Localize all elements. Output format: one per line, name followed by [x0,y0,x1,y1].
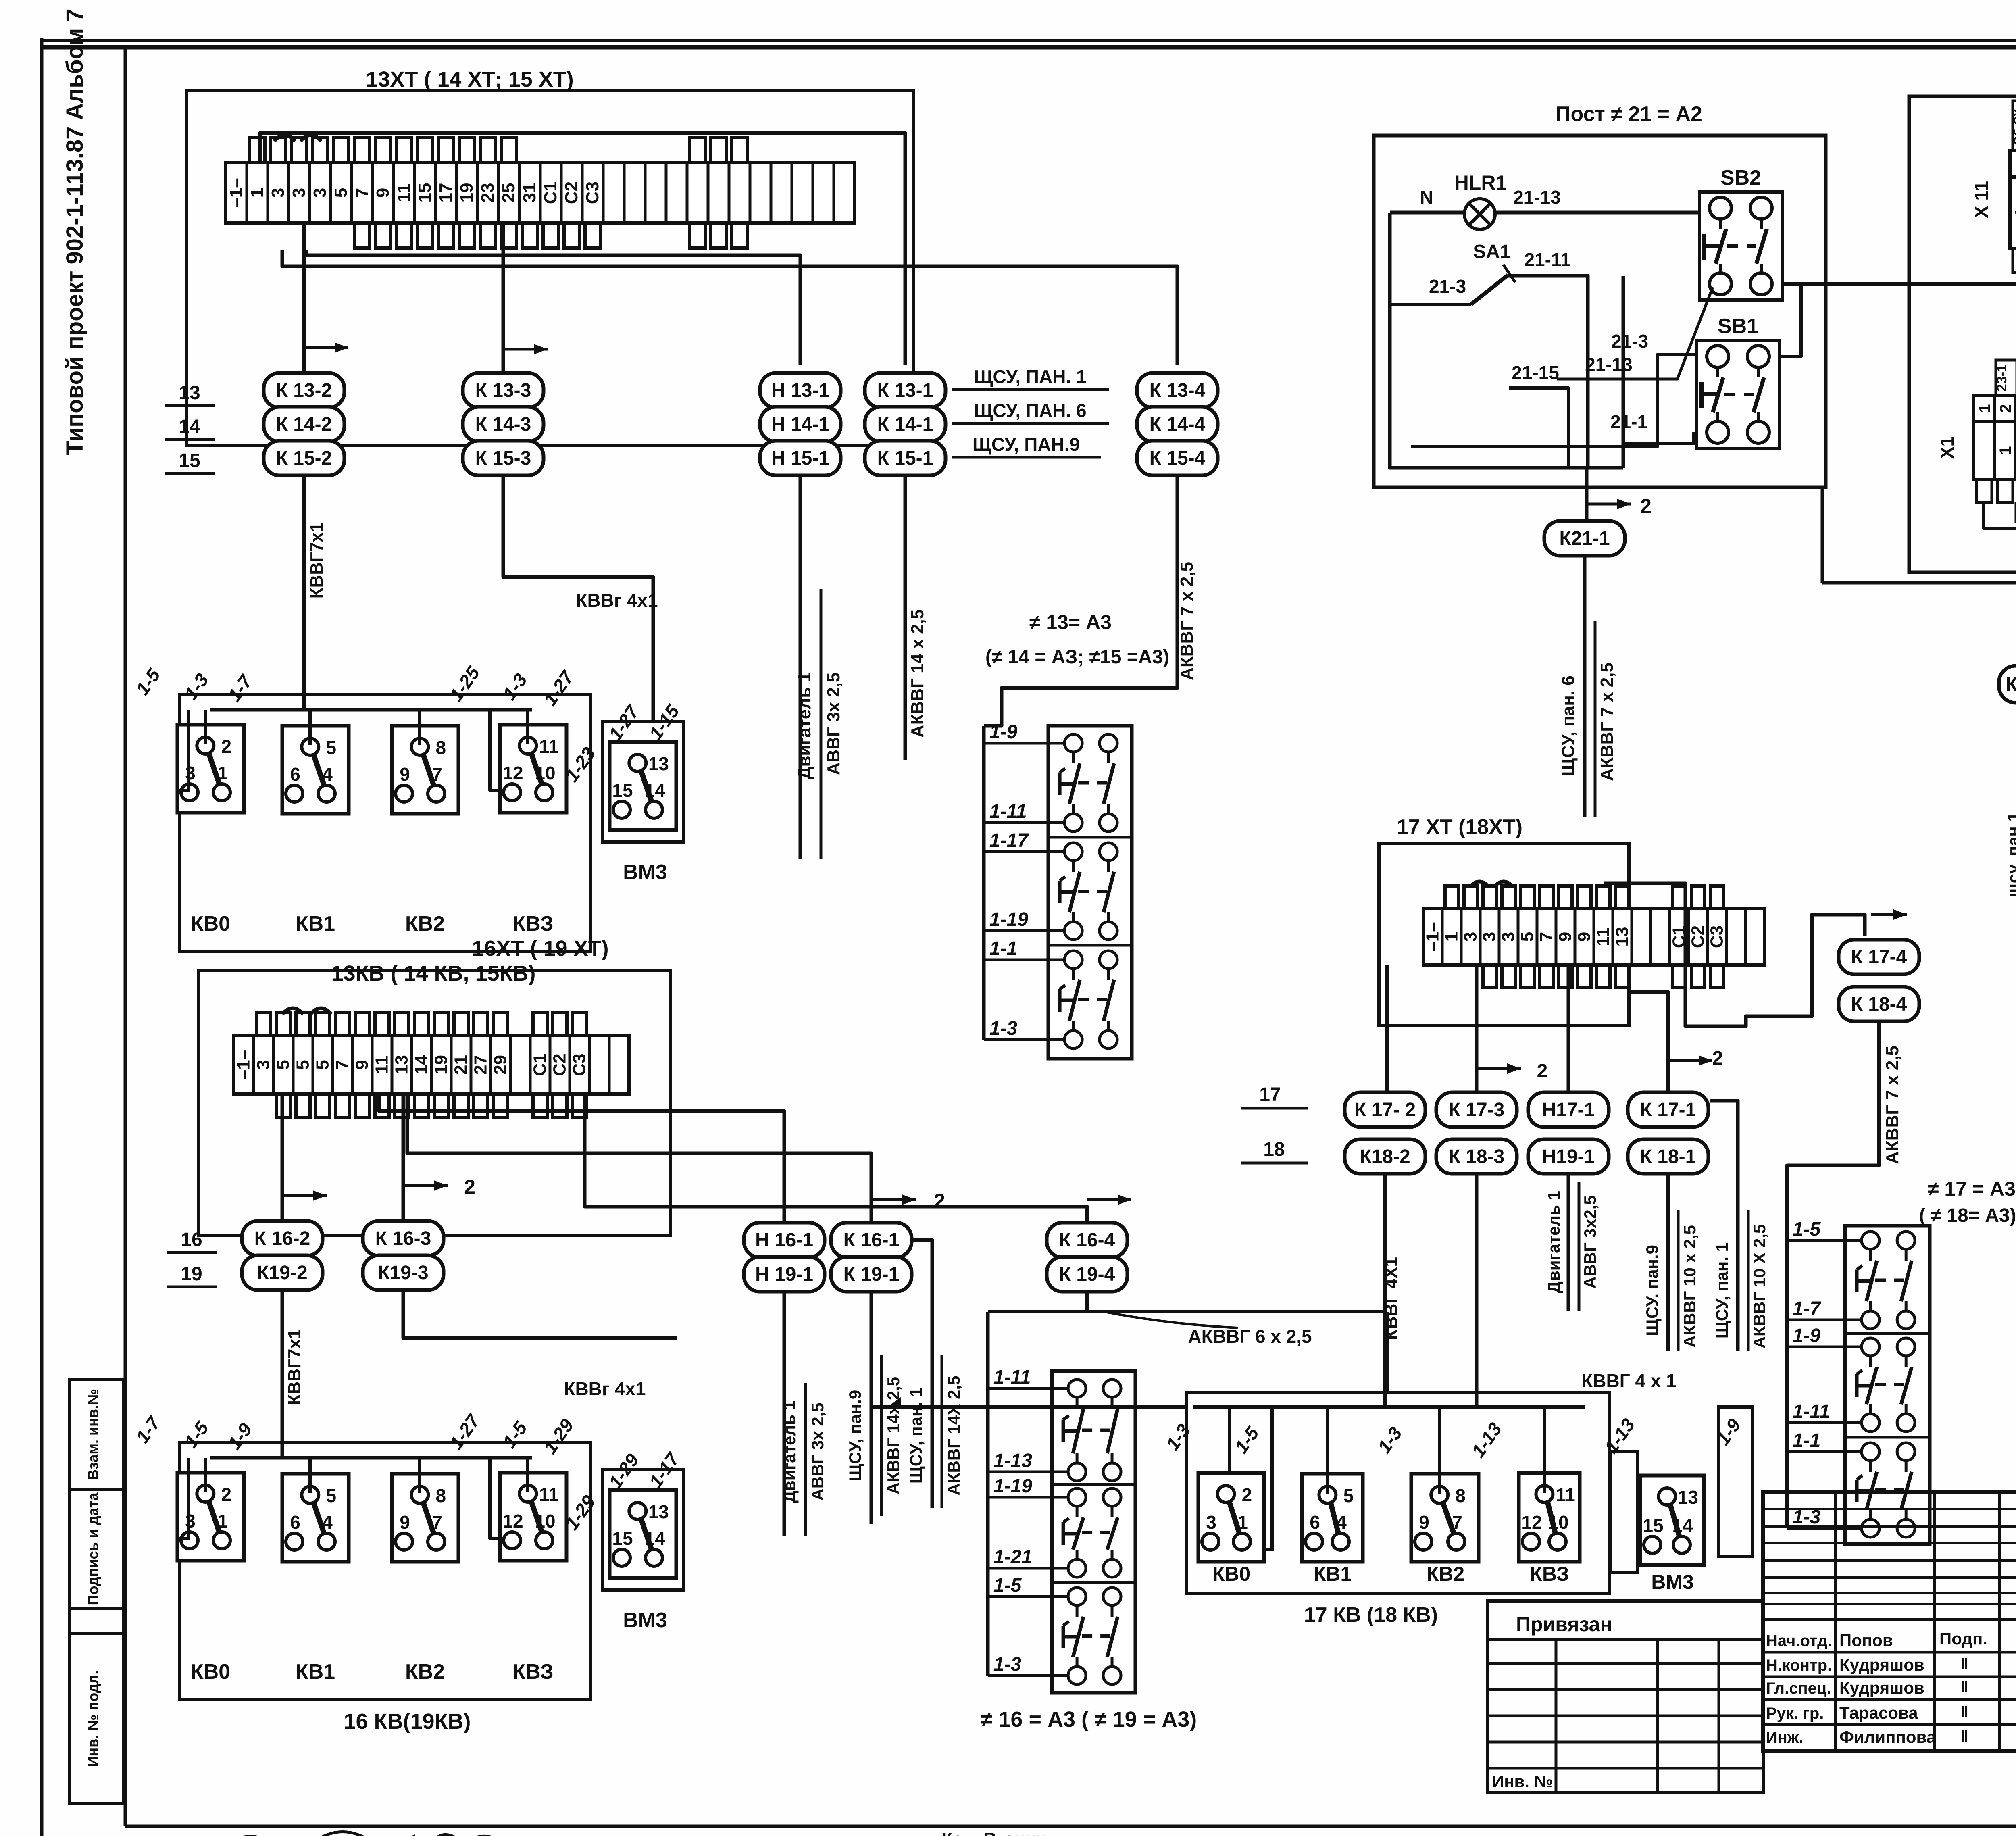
svg-text:5: 5 [313,1060,333,1069]
svg-text:2: 2 [221,1484,232,1505]
svg-text:Н19-1: Н19-1 [1542,1146,1595,1167]
terminal block 13XT outline box [187,90,913,445]
block16 contact group 1-5/1-3 [1063,1588,1121,1684]
wire H19-1 down, cable Двигатель АВВГ3х2,5 [783,1292,786,1536]
svg-text:2: 2 [934,1190,945,1212]
wire from SB pushbuttons into ЯУП [1782,273,2016,284]
svg-text:(≠ 14 = АЗ; ≠15 =А3): (≠ 14 = АЗ; ≠15 =А3) [985,646,1169,668]
svg-text:К 18-1: К 18-1 [1640,1146,1696,1167]
svg-text:‖: ‖ [1960,1703,1968,1721]
wire 16XT to H16-1 [379,1094,784,1222]
svg-text:КВ1: КВ1 [1314,1563,1352,1585]
svg-text:19: 19 [431,1055,451,1075]
svg-text:SB1: SB1 [1718,315,1758,338]
svg-text:К 13-2: К 13-2 [276,380,332,401]
svg-text:К 13-4: К 13-4 [1150,380,1206,401]
left attachment box spacer [69,1608,123,1633]
svg-text:3: 3 [1499,932,1518,942]
cable marker K17-3 [1436,1092,1517,1127]
svg-text:К 15-2: К 15-2 [276,448,332,469]
svg-text:К 14-3: К 14-3 [475,414,531,435]
sheet outer border left edge [40,38,44,1836]
svg-text:С1: С1 [541,181,560,204]
svg-text:КВ0: КВ0 [191,912,230,936]
svg-text:13КВ ( 14 КВ, 15КВ): 13КВ ( 14 КВ, 15КВ) [331,961,535,986]
cable marker H15-1 [760,441,841,475]
svg-text:5: 5 [293,1060,313,1069]
svg-text:14: 14 [412,1055,431,1075]
svg-text:КВВГ 4Х1: КВВГ 4Х1 [1381,1257,1401,1340]
wire 16XT to K16-2 with arrow [281,1094,284,1221]
title block main outline [1763,1492,2016,1751]
svg-text:9: 9 [1574,932,1594,942]
cable marker K19-3 [363,1255,444,1290]
svg-text:7: 7 [432,1512,442,1533]
svg-text:2: 2 [464,1175,475,1198]
wire 17XT to K17-3 with arrow [1475,965,1479,1091]
svg-text:К 14-2: К 14-2 [276,414,332,435]
svg-text:29: 29 [491,1055,510,1075]
wire post to K21-1 with arrow 2 [1585,468,1589,521]
svg-text:16 КВ(19КВ): 16 КВ(19КВ) [344,1709,471,1734]
svg-text:Взам. инв.№: Взам. инв.№ [85,1389,101,1480]
svg-text:12: 12 [502,1511,523,1532]
drawing frame left border [124,47,127,1826]
svg-text:21: 21 [451,1055,471,1075]
svg-text:ВМ3: ВМ3 [623,1609,667,1632]
svg-text:3: 3 [289,188,309,198]
svg-text:С2: С2 [562,181,581,204]
svg-text:8: 8 [1455,1485,1466,1506]
sheet top border double line [40,39,2016,42]
switch KV3 of 17KV [1519,1473,1580,1562]
svg-text:‖: ‖ [1960,1678,1968,1696]
svg-text:Инж.: Инж. [1766,1729,1803,1746]
svg-text:КВ1: КВ1 [296,1660,335,1684]
svg-text:≠ 16 = А3 ( ≠ 19 = А3): ≠ 16 = А3 ( ≠ 19 = А3) [981,1707,1197,1732]
svg-text:К 17-3: К 17-3 [1449,1099,1505,1121]
svg-text:К19-3: К19-3 [378,1262,428,1284]
cable marker K17-1 [1628,1092,1708,1127]
svg-text:1-11: 1-11 [1793,1401,1830,1422]
svg-text:ВМ3: ВМ3 [623,861,667,884]
svg-text:9: 9 [400,764,410,785]
wire 13XT to H13-1 [306,250,800,365]
svg-text:Х1: Х1 [1937,436,1958,459]
block16 block outline [1052,1371,1135,1693]
bus wire inside 13KV [210,708,532,712]
left loop wire [1390,213,1623,468]
pushbutton SB1 [1697,315,1779,448]
svg-text:1-1: 1-1 [989,938,1017,959]
svg-text:АКВВГ 7 х 2,5: АКВВГ 7 х 2,5 [1177,562,1197,680]
svg-text:ЩСУ, ПАН.9: ЩСУ, ПАН.9 [973,434,1080,455]
svg-text:КВ1: КВ1 [296,912,335,936]
contact block 16 group [986,1312,990,1371]
svg-text:SB2: SB2 [1720,166,1761,190]
svg-text:21-13: 21-13 [1513,187,1561,208]
svg-text:4: 4 [322,1512,333,1533]
X1 bottom wires [1984,502,2016,540]
svg-text:15: 15 [612,1528,633,1549]
svg-text:1: 1 [247,188,267,198]
svg-text:С3: С3 [583,181,602,204]
svg-text:13: 13 [648,1501,669,1522]
svg-text:13: 13 [179,382,200,404]
svg-text:Гл.спец.: Гл.спец. [1766,1680,1831,1697]
svg-text:2: 2 [221,736,232,757]
cable marker K13-2 [264,373,344,408]
svg-text:11: 11 [1556,1484,1575,1505]
svg-text:Инв. №: Инв. № [1492,1772,1553,1791]
cable marker K14-2 [264,407,344,442]
svg-text:АВВГ 3х 2,5: АВВГ 3х 2,5 [824,673,843,775]
svg-text:8: 8 [436,737,446,758]
svg-text:1-13: 1-13 [993,1450,1032,1471]
switch KV1 of 16KV [282,1474,349,1562]
svg-text:Н17-1: Н17-1 [1542,1099,1595,1121]
cable marker K13-1 [865,373,946,408]
wire K15-1 down, cable АКВВГ 14х2,5 [904,475,907,760]
X1 extra bottom wires [2015,502,2016,523]
switch KV1 of 17KV [1302,1474,1363,1562]
block13 contact group 1-17/1-19 [1060,843,1117,940]
cable marker K16-4 [1047,1223,1127,1257]
svg-text:7: 7 [352,188,372,198]
svg-text:С1: С1 [530,1053,550,1076]
svg-text:9: 9 [1419,1512,1429,1533]
cable marker H19-1b [1528,1139,1609,1174]
svg-text:4: 4 [322,764,333,785]
svg-text:К21-1: К21-1 [1559,528,1610,549]
block17 contact group 1-1/1-3 [1857,1443,1915,1537]
svg-text:К 19-1: К 19-1 [843,1264,900,1285]
svg-text:15: 15 [179,450,200,471]
svg-text:1-19: 1-19 [993,1475,1032,1497]
wire K18-4 down to contact block 17 cable АКВВГ 7х2,5 [1787,1021,1879,1226]
svg-text:21-3: 21-3 [1429,276,1466,297]
left attachment box Подпись и дата [69,1490,123,1608]
svg-text:19: 19 [457,183,477,203]
switch KV0 of 16KV [177,1473,244,1561]
svg-text:SA1: SA1 [1473,241,1510,263]
svg-text:3: 3 [1206,1512,1216,1533]
box ВМ3 of 16KV outline [603,1470,683,1590]
wire K17-1 right down cable ЩСУ пан.1 АКВВГ 10х2,5 [1710,1101,1738,1351]
title block name rows [1763,1651,2016,1654]
terminal block 16XT outline box [199,971,671,1236]
cable marker K17-2 [1345,1092,1425,1127]
svg-text:Н 15-1: Н 15-1 [771,448,829,469]
box 17KV outline [1186,1392,1610,1593]
svg-text:Х 11: Х 11 [1971,181,1992,218]
svg-text:5: 5 [1343,1485,1354,1506]
svg-text:Пост ≠ 21 = А2: Пост ≠ 21 = А2 [1556,102,1702,126]
svg-text:К 16-4: К 16-4 [1059,1230,1115,1251]
svg-text:10: 10 [535,1511,555,1532]
switch KV0 of 17KV [1198,1473,1264,1562]
svg-text:1-11: 1-11 [989,801,1027,822]
svg-text:ЩСУ, пан. 1: ЩСУ, пан. 1 [906,1388,925,1484]
svg-text:АКВВГ 14 х 2,5: АКВВГ 14 х 2,5 [908,609,927,738]
svg-text:1-9: 1-9 [1793,1325,1821,1346]
cable marker K13-3 [463,373,544,408]
svg-text:1-3: 1-3 [993,1654,1022,1675]
svg-text:Об.СХ: Об.СХ [2012,109,2016,146]
svg-text:КВ0: КВ0 [191,1660,230,1684]
svg-text:2: 2 [1640,495,1652,517]
terminal block 17XT outline box [1379,844,1629,1025]
svg-text:Н 14-1: Н 14-1 [771,414,829,435]
X11 bottom bus wire [2013,258,2016,273]
svg-text:1: 1 [217,763,228,784]
svg-text:Попов: Попов [1839,1631,1893,1650]
svg-text:К 15-1: К 15-1 [877,448,933,469]
switch KV2 of 17KV [1411,1474,1479,1562]
svg-text:К 23-1-1: К 23-1-1 [2006,674,2016,695]
svg-text:5: 5 [273,1060,293,1069]
block17 block outline [1845,1226,1930,1544]
wire H19-1 down cable Двигатель АВВГ 3х2,5 [1567,1174,1570,1311]
svg-text:3: 3 [310,188,330,198]
left attachment box Взам.инв.№ [69,1380,123,1490]
bus wire inside 17KV [1193,1405,1585,1409]
wire H15-1 down, cable Двигатель АВВГ3х2,5 [799,475,802,859]
svg-text:К 17-1: К 17-1 [1640,1099,1696,1121]
svg-text:Тарасова: Тарасова [1839,1703,1918,1722]
svg-text:‖: ‖ [1960,1655,1968,1673]
svg-text:10: 10 [535,763,555,784]
cable marker K18-4 [1839,987,1919,1021]
X11 tab Об.СХ [2013,101,2016,150]
box ВМ3 outline [603,722,683,842]
wire K15-4 down to contact block 13 [984,475,1177,726]
terminal strip X11 upper small row [2010,150,2016,177]
wire K15-2 down to 13KV cable КВВГ7х1 [302,475,306,710]
terminal strip 17XT [1423,886,1765,988]
switch KV0 of 13KV [177,725,244,813]
svg-text:ВМ3: ВМ3 [1651,1571,1694,1593]
svg-text:21-3: 21-3 [1611,331,1648,352]
svg-text:Н 19-1: Н 19-1 [755,1264,813,1285]
svg-text:6: 6 [290,1512,300,1533]
cable marker K18-3 [1436,1139,1517,1174]
svg-text:Филиппова: Филиппова [1839,1728,1936,1746]
cable marker H14-1 [760,407,841,442]
terminal strip X11 name band [2010,177,2016,248]
svg-text:К 16-1: К 16-1 [843,1230,900,1251]
svg-text:Двигатель 1: Двигатель 1 [795,672,814,779]
svg-text:9: 9 [1556,932,1575,942]
cable marker H13-1 [760,373,841,408]
block16 contact group 1-11/1-13 [1063,1380,1121,1481]
cable marker K21-1 [1544,521,1625,556]
wire K21-1 down cable ЩСУ пан.6 АКВВГ 7х2,5 [1583,556,1587,817]
svg-text:К18-2: К18-2 [1360,1146,1410,1167]
block17 contact group 1-5/1-7 [1857,1232,1915,1329]
svg-text:5: 5 [1518,932,1537,942]
svg-text:1-3: 1-3 [989,1018,1018,1039]
svg-text:15: 15 [612,780,633,801]
svg-text:ЩСУ. пан.9: ЩСУ. пан.9 [1643,1245,1662,1336]
svg-text:13: 13 [392,1055,412,1075]
svg-text:КВЗ: КВЗ [512,1660,553,1684]
svg-text:Кудряшов: Кудряшов [1839,1655,1924,1674]
svg-text:11: 11 [539,736,559,757]
svg-text:≠ 13= А3: ≠ 13= А3 [1029,611,1112,634]
svg-text:17: 17 [436,183,456,203]
svg-text:3: 3 [268,188,288,198]
cable marker H19-1 [744,1257,825,1292]
svg-text:11: 11 [372,1055,392,1074]
svg-text:НLR1: НLR1 [1454,171,1507,194]
svg-text:1-1: 1-1 [1793,1430,1820,1451]
svg-text:4: 4 [1336,1512,1347,1533]
wire 13XT to K13-2 with arrow [302,223,306,373]
svg-text:АКВВГ 10 Х 2,5: АКВВГ 10 Х 2,5 [1750,1224,1769,1349]
svg-text:13ХТ ( 14 ХТ; 15 ХТ): 13ХТ ( 14 ХТ; 15 ХТ) [366,67,573,92]
svg-text:1-19: 1-19 [989,909,1028,930]
title block thin rows [1763,1508,2016,1510]
jumper arcs on 16XT top [282,1008,303,1014]
svg-text:5: 5 [331,188,351,198]
cable marker K18-1 [1628,1139,1708,1174]
svg-text:5: 5 [326,737,337,758]
svg-text:1: 1 [217,1511,228,1532]
svg-text:3: 3 [254,1060,273,1069]
block13 contact group 1-9/1-11 [1060,734,1117,832]
svg-text:13: 13 [1612,927,1632,947]
svg-text:12: 12 [1521,1512,1542,1533]
terminal strip 13XT [226,138,855,248]
svg-text:АВВГ 3х2,5: АВВГ 3х2,5 [1581,1195,1599,1289]
svg-text:‖: ‖ [1960,1728,1968,1745]
post box outline [1374,135,1826,487]
wires into KV0 [204,710,207,744]
box 13KV outline [179,694,591,952]
svg-text:14: 14 [1672,1515,1693,1536]
svg-text:21-11: 21-11 [1524,249,1570,270]
svg-text:Типовой проект 902-1-113.87: Типовой проект 902-1-113.87 Альбом 7 [62,8,88,455]
terminal strip X1 numbers row [1974,396,2016,421]
svg-text:1: 1 [1237,1512,1248,1533]
switch KV2 of 13KV [392,726,458,814]
svg-text:АКВВГ 10 х 2,5: АКВВГ 10 х 2,5 [1680,1225,1699,1348]
svg-text:21-13: 21-13 [1585,354,1633,375]
svg-text:1-11: 1-11 [993,1367,1031,1388]
svg-text:23: 23 [478,183,498,203]
ВМ3 rects of 17KV [1611,1452,1637,1573]
svg-text:С2: С2 [550,1053,570,1076]
svg-text:Инв. № подл.: Инв. № подл. [85,1671,101,1767]
svg-text:К 18-4: К 18-4 [1851,994,1907,1015]
wire 16XT to K16-1 [407,1094,871,1222]
svg-text:щсу, пан.1: щсу, пан.1 [2004,812,2016,897]
cable marker K15-2 [264,441,344,475]
tall conduit rect above KV0 17KV [1229,1407,1272,1549]
cable marker K15-1 [865,441,946,475]
svg-text:ЩСУ, пан. 6: ЩСУ, пан. 6 [1558,675,1578,776]
block13 contact group 1-1/1-3 [1060,951,1117,1048]
block16 contact group 1-19/1-21 [1063,1488,1121,1577]
cable marker K16-1 [831,1223,912,1257]
wire 13XT top bus to K13-1 [260,133,905,365]
svg-text:ЩСУ, пан.9: ЩСУ, пан.9 [846,1390,864,1481]
svg-text:21-1: 21-1 [1610,411,1647,432]
cable marker K15-4 [1137,441,1218,475]
wire K16-1 right down, cable ЩСУ пан.1 АКВВГ 14х2,5 [912,1240,932,1508]
svg-text:2: 2 [1242,1484,1252,1505]
svg-text:18: 18 [1263,1139,1285,1160]
svg-text:7: 7 [1452,1512,1462,1533]
svg-text:23-1: 23-1 [1994,364,2010,392]
cable marker K19-1 [831,1257,912,1292]
svg-text:АКВВГ 6 х 2,5: АКВВГ 6 х 2,5 [1188,1326,1312,1347]
svg-text:КВВГ7х1: КВВГ7х1 [307,523,327,599]
wire 17XT upper bus to K17-4 [1604,883,1865,1026]
svg-text:1: 1 [2012,208,2016,217]
svg-text:14: 14 [644,1528,665,1549]
svg-text:3: 3 [1480,932,1500,942]
wire K19-2 down to 16KV cable КВВГ7х1 [281,1290,284,1456]
svg-text:1: 1 [1976,404,1993,413]
svg-text:14: 14 [644,780,665,801]
wire 13XT to K13-3 with arrow [502,223,505,373]
cable marker K13-4 [1137,373,1218,408]
svg-text:КВВГ 4 х 1: КВВГ 4 х 1 [1581,1370,1677,1391]
block13 feeder vertical wire [982,726,986,1040]
svg-text:КВВг 4х1: КВВг 4х1 [576,590,658,611]
cable marker K18-2 [1345,1139,1425,1174]
svg-text:Н 16-1: Н 16-1 [755,1230,813,1251]
block17 contact group 1-9/1-11 [1857,1338,1915,1432]
svg-text:17: 17 [1259,1084,1281,1105]
wire КВВГ 4х1 horizontal into 17KV [871,1405,1186,1409]
wire K19-3 down-right cable КВВг 4х1 [403,1290,677,1338]
wire 16XT to K16-4 [585,1094,1087,1222]
svg-text:16ХТ ( 19 ХТ): 16ХТ ( 19 ХТ) [472,936,608,961]
cabinet ЯУП outline [1909,96,2016,572]
svg-text:2: 2 [1712,1048,1723,1069]
svg-text:13: 13 [1678,1487,1698,1508]
svg-text:КВ2: КВ2 [405,1660,445,1684]
svg-text:11: 11 [539,1484,559,1505]
switch KV2 of 16KV [392,1474,458,1562]
svg-text:АКВВГ 14Х 2,5: АКВВГ 14Х 2,5 [944,1376,963,1496]
cable marker K14-1 [865,407,946,442]
svg-text:21-15: 21-15 [1512,362,1559,383]
svg-text:( ≠ 18= А3): ( ≠ 18= А3) [1919,1205,2016,1226]
svg-text:Подп.: Подп. [1939,1629,1987,1648]
svg-text:2: 2 [1537,1061,1548,1082]
svg-text:8: 8 [436,1485,446,1506]
svg-text:Двигатель 1: Двигатель 1 [1544,1191,1563,1293]
svg-text:Н.контр.: Н.контр. [1766,1657,1832,1674]
svg-text:С3: С3 [1707,925,1727,948]
title block columns left part [1834,1492,1837,1751]
svg-text:КВВГ7х1: КВВГ7х1 [285,1329,304,1405]
svg-text:КВ0: КВ0 [1212,1563,1250,1585]
terminal strip 16XT [234,1012,629,1117]
cable marker H16-1 [744,1223,825,1257]
cable marker K16-2 [242,1221,323,1256]
svg-text:Кудряшов: Кудряшов [1839,1678,1924,1697]
svg-text:15: 15 [415,183,435,203]
svg-text:К19-2: К19-2 [257,1262,307,1284]
svg-text:1-17: 1-17 [989,830,1029,851]
wire K19-4 down right, cable АКВВГ 6х2,5 [1085,1292,1089,1312]
svg-text:N: N [1420,187,1433,208]
